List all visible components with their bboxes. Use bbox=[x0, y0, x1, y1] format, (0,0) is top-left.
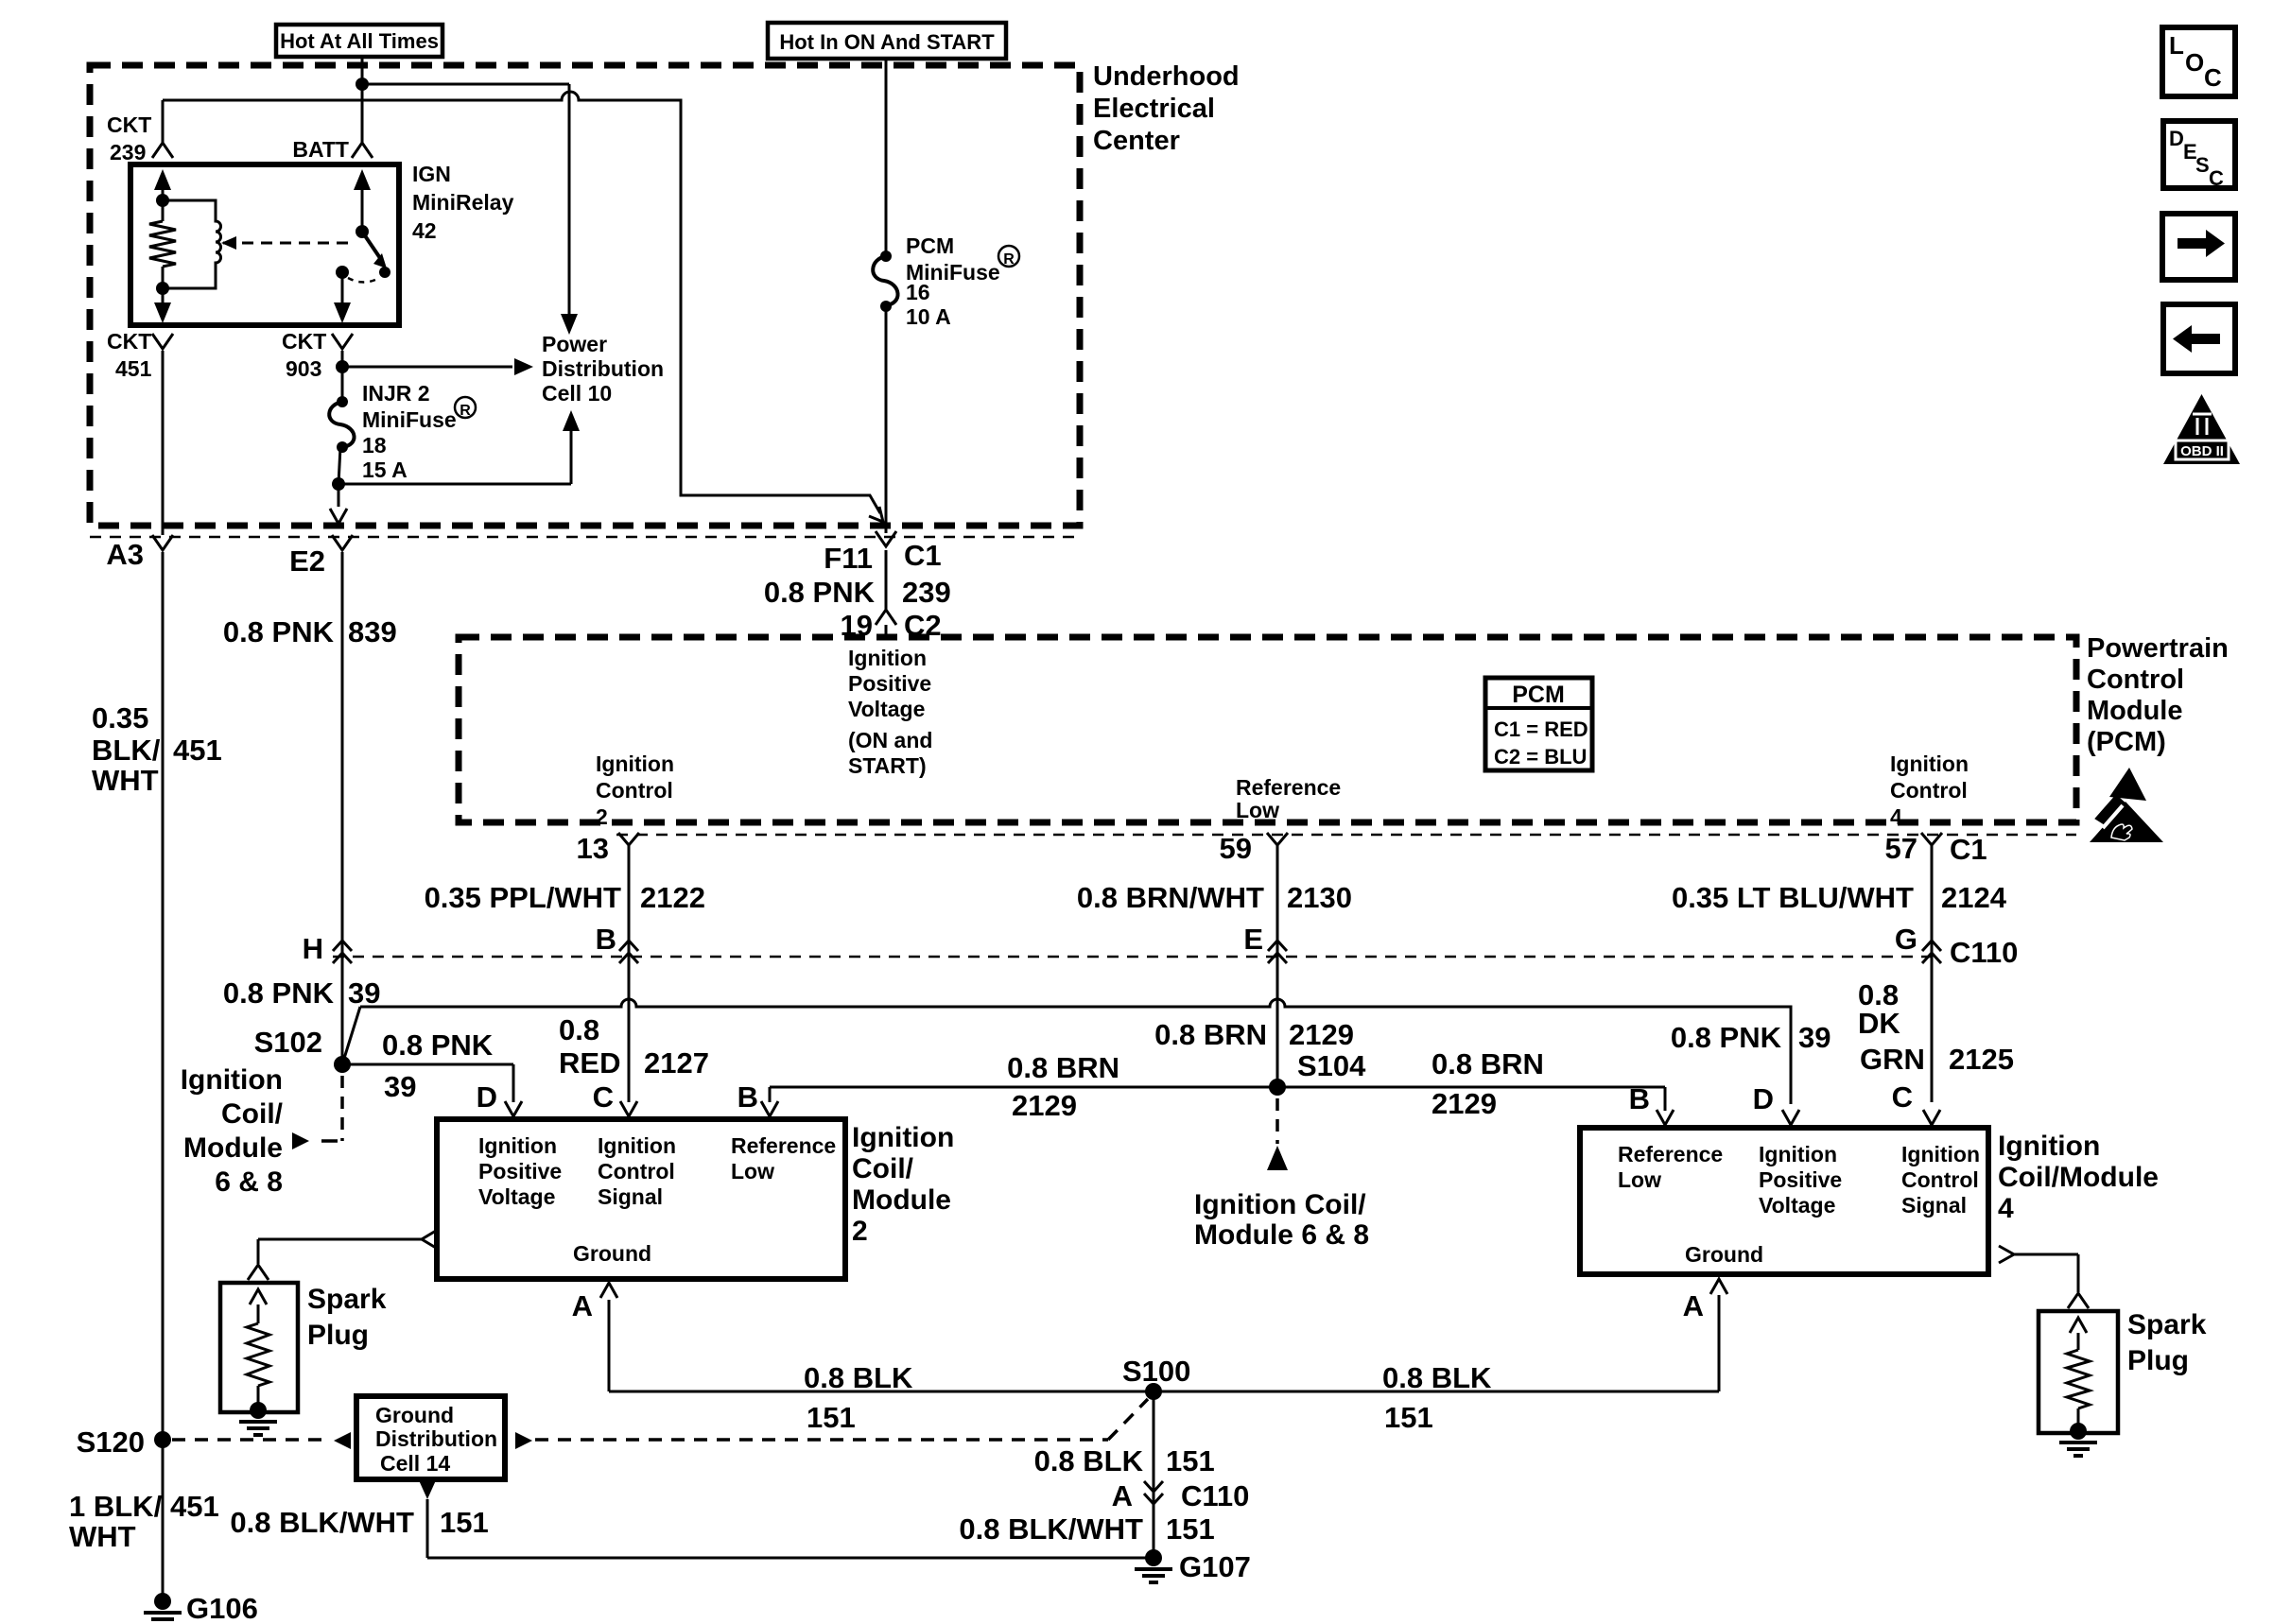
ground symbol at spark plug (left) bbox=[239, 1422, 277, 1435]
svg-text:151: 151 bbox=[1166, 1512, 1215, 1546]
svg-text:839: 839 bbox=[348, 615, 397, 648]
relay box IGN MiniRelay 42 bbox=[130, 164, 399, 325]
connector interface dashed line under UEC bbox=[90, 536, 1080, 539]
svg-text:2127: 2127 bbox=[644, 1046, 709, 1080]
wire 0.8 BLK 151 run bbox=[609, 1391, 1719, 1393]
wire ground from coil 2 pin A bbox=[608, 1300, 611, 1391]
svg-text:451: 451 bbox=[115, 356, 152, 381]
relay pin arrow BATT side bbox=[354, 169, 371, 190]
splice S100 bbox=[1145, 1383, 1162, 1400]
svg-text:0.8 BLK: 0.8 BLK bbox=[1034, 1444, 1144, 1477]
svg-text:A3: A3 bbox=[106, 538, 144, 571]
ESD symbol lower triangle bbox=[2090, 802, 2163, 842]
svg-text:13: 13 bbox=[577, 832, 609, 865]
svg-text:G107: G107 bbox=[1179, 1550, 1251, 1583]
relay resistor bbox=[149, 221, 176, 267]
icon forward arrow box bbox=[2162, 214, 2235, 280]
svg-text:39: 39 bbox=[384, 1070, 416, 1103]
svg-text:151: 151 bbox=[440, 1506, 489, 1539]
arrow up into Power Distribution Cell 10 bbox=[563, 410, 580, 431]
svg-text:0.8 BRN: 0.8 BRN bbox=[1007, 1051, 1119, 1084]
svg-text:0.8 BLK/WHT: 0.8 BLK/WHT bbox=[230, 1506, 414, 1539]
svg-text:0.8 BRN: 0.8 BRN bbox=[1431, 1047, 1544, 1080]
arrow at UEC boundary E2 bbox=[330, 509, 347, 524]
Ground Distribution Cell 14 box bbox=[356, 1396, 505, 1479]
svg-text:Cell 14: Cell 14 bbox=[380, 1451, 450, 1476]
relay switch arm bbox=[362, 232, 380, 258]
svg-text:Ignition Coil/Module 6 & 8: Ignition Coil/Module 6 & 8 bbox=[1194, 1189, 1369, 1251]
wire: Hot At All Times feed down to BATT bbox=[361, 57, 364, 143]
svg-text:39: 39 bbox=[348, 976, 380, 1010]
svg-text:BLK/: BLK/ bbox=[92, 734, 161, 767]
relay coil bottom node bbox=[156, 282, 169, 295]
relay switch arm arrowhead bbox=[373, 253, 387, 268]
svg-text:C: C bbox=[2209, 166, 2224, 190]
relay coil winding bbox=[163, 200, 221, 288]
wire diagonal from S102 to 39 run bbox=[342, 1007, 360, 1064]
svg-text:GRN: GRN bbox=[1860, 1043, 1925, 1076]
wire branch to Power Distribution bbox=[342, 366, 512, 369]
registered trademark mark bbox=[455, 397, 476, 418]
svg-text:C: C bbox=[593, 1080, 614, 1114]
wire ground from coil 4 pin A bbox=[1718, 1295, 1721, 1391]
icon back arrow box bbox=[2163, 304, 2235, 373]
svg-text:B: B bbox=[737, 1080, 758, 1114]
wire S100 down to G107 bbox=[1153, 1391, 1155, 1558]
connector E2 bbox=[332, 535, 353, 550]
relay switch arm contact bbox=[379, 267, 390, 278]
svg-text:CKT: CKT bbox=[107, 112, 151, 137]
svg-text:0.8 PNK: 0.8 PNK bbox=[223, 615, 335, 648]
PCM pin 13 connector bbox=[618, 833, 639, 845]
spark gap arrow (left) bbox=[250, 1289, 267, 1304]
relay pin arrow CKT903 side bbox=[334, 302, 351, 323]
svg-text:(ON andSTART): (ON andSTART) bbox=[848, 728, 932, 778]
svg-text:A: A bbox=[1683, 1289, 1704, 1322]
svg-text:Hot In ON And START: Hot In ON And START bbox=[779, 30, 995, 54]
svg-text:IgnitionPositiveVoltage: IgnitionPositiveVoltage bbox=[848, 646, 931, 721]
ESD symbol upper triangle bbox=[2109, 768, 2146, 801]
svg-text:451: 451 bbox=[173, 734, 222, 767]
svg-text:A: A bbox=[572, 1289, 593, 1322]
connector C2 at PCM bbox=[876, 610, 896, 625]
registered trademark mark bbox=[998, 246, 1019, 267]
arrow joining PCM fuse output at C1 bbox=[869, 507, 883, 522]
spark plug (right) bbox=[2039, 1311, 2118, 1433]
dashed wire Ground Distribution to S100 bbox=[535, 1438, 1108, 1442]
relay switch input wire bbox=[361, 185, 364, 232]
ground symbol G107 bbox=[1135, 1569, 1172, 1582]
Underhood Electrical Center dashed enclosure bbox=[90, 65, 1080, 526]
connector C110 dashed line bbox=[333, 956, 1938, 959]
svg-text:Ground: Ground bbox=[573, 1241, 651, 1266]
svg-text:C110: C110 bbox=[1181, 1479, 1249, 1512]
wire coil 4 secondary to spark plug bbox=[1999, 1246, 2014, 1263]
svg-text:239: 239 bbox=[902, 576, 951, 609]
connector B at C110 bbox=[619, 941, 638, 951]
wire 0.35 BLK/WHT 451 down to S120 bbox=[162, 552, 165, 1440]
svg-text:39: 39 bbox=[1798, 1021, 1831, 1054]
svg-text:D: D bbox=[477, 1080, 497, 1114]
wire INJR2 to E2 pin bbox=[338, 484, 340, 507]
svg-text:E2: E2 bbox=[289, 544, 325, 578]
wire 0.8 PNK 39 branch to coil module 2 bbox=[342, 1063, 513, 1066]
svg-text:0.35 LT BLU/WHT: 0.35 LT BLU/WHT bbox=[1672, 881, 1914, 914]
dashed stub to Ignition Coil/Module 6 & 8 (S104) bbox=[1275, 1098, 1279, 1144]
svg-text:IgnitionPositiveVoltage: IgnitionPositiveVoltage bbox=[478, 1133, 562, 1209]
wire pole to CKT903 pin bbox=[341, 272, 344, 306]
CKT 451 pin connector bbox=[152, 334, 173, 349]
svg-text:WHT: WHT bbox=[69, 1520, 136, 1553]
BATT pin connector bbox=[352, 143, 373, 158]
PCM connector interface dashed line bbox=[616, 834, 2076, 837]
svg-text:0.8 BLK/WHT: 0.8 BLK/WHT bbox=[959, 1512, 1143, 1546]
svg-text:2130: 2130 bbox=[1287, 881, 1352, 914]
svg-text:0.8: 0.8 bbox=[559, 1013, 599, 1046]
arrow to Power Distribution Cell 10 bbox=[514, 358, 533, 375]
svg-text:2129: 2129 bbox=[1012, 1089, 1077, 1122]
svg-text:S: S bbox=[2195, 153, 2210, 177]
svg-text:1 BLK/: 1 BLK/ bbox=[69, 1490, 163, 1523]
ESD symbol gap bbox=[2103, 805, 2123, 828]
svg-text:R: R bbox=[460, 403, 471, 419]
icon OBD II triangle bbox=[2163, 394, 2240, 464]
svg-text:BATT: BATT bbox=[292, 137, 349, 162]
svg-text:239: 239 bbox=[110, 140, 146, 164]
wire S120 to G106 bbox=[162, 1440, 165, 1601]
wire: drop to Power Distribution bbox=[568, 84, 571, 316]
wire PCM fuse down to C1 connector bbox=[885, 306, 888, 533]
junction CKT903 branch bbox=[336, 360, 349, 373]
spark plug connector (left) bbox=[248, 1265, 269, 1280]
svg-text:0.35 PPL/WHT: 0.35 PPL/WHT bbox=[425, 881, 621, 914]
spark plug ground node (left) bbox=[250, 1402, 267, 1419]
Powertrain Control Module dashed enclosure bbox=[459, 637, 2076, 822]
svg-text:CKT: CKT bbox=[107, 329, 151, 354]
spark plug resistor (left) bbox=[247, 1323, 269, 1386]
svg-text:C2 = BLU: C2 = BLU bbox=[1494, 745, 1587, 769]
relay pin arrow CKT239 side bbox=[154, 169, 171, 190]
relay coil top node bbox=[156, 194, 169, 207]
relay switch travel arc bbox=[348, 278, 379, 283]
ESD symbol wrist bbox=[2095, 795, 2125, 825]
svg-text:151: 151 bbox=[1166, 1444, 1215, 1477]
wire from INJR2 fuse output up to Cell 10 bbox=[570, 427, 573, 484]
relay switch pole bbox=[336, 266, 349, 279]
icon LOC box bbox=[2162, 27, 2235, 96]
fuse PCM MiniFuse 16 10A bbox=[880, 251, 892, 262]
PCM pin 59 connector bbox=[1267, 833, 1288, 845]
wire C2 into PCM bbox=[885, 625, 888, 639]
wire into relay resistor bbox=[162, 200, 165, 221]
actuation arrow at coil bbox=[221, 236, 236, 250]
arrow from Ignition Coil/Module 6 & 8 bbox=[292, 1132, 309, 1149]
wire 0.8 BRN 2129 run between coil modules bbox=[770, 1086, 1665, 1089]
wire 0.8 PNK 39 run to coil module 4 with hops bbox=[360, 999, 1791, 1104]
ground symbol G106 bbox=[144, 1613, 182, 1624]
svg-text:R: R bbox=[1003, 251, 1015, 268]
svg-text:C: C bbox=[1892, 1080, 1913, 1114]
svg-text:C: C bbox=[2204, 63, 2222, 92]
svg-text:0.8 PNK: 0.8 PNK bbox=[223, 976, 335, 1010]
svg-text:S100: S100 bbox=[1122, 1355, 1190, 1388]
wire 0.35 LT BLU/WHT 2124 / 0.8 DK GRN 2125 bbox=[1931, 845, 1934, 1102]
arrow into coil module 4 pin D bbox=[1782, 1110, 1799, 1125]
splice S104 bbox=[1269, 1079, 1286, 1096]
ESD symbol hand bbox=[2111, 824, 2132, 840]
svg-text:OBD II: OBD II bbox=[2180, 443, 2224, 459]
svg-text:2124: 2124 bbox=[1941, 881, 2007, 914]
svg-text:PCM: PCM bbox=[1512, 682, 1565, 708]
svg-text:C1: C1 bbox=[904, 539, 942, 572]
wire coil 2 secondary to spark plug bbox=[422, 1231, 436, 1248]
relay actuation dashed link bbox=[223, 242, 354, 245]
PCM connector color legend box bbox=[1485, 678, 1592, 770]
svg-text:L: L bbox=[2169, 31, 2184, 60]
wire 0.35 PPL/WHT 2122 / 0.8 RED 2127 bbox=[628, 845, 631, 1102]
wire 0.8 PNK 839/39 down to S102 bbox=[341, 552, 344, 1064]
connector C1 at UEC bbox=[876, 531, 896, 546]
svg-text:2122: 2122 bbox=[640, 881, 705, 914]
junction to Cell 10 feed bbox=[332, 477, 345, 491]
relay switch pivot bbox=[356, 225, 369, 238]
splice S120 bbox=[154, 1431, 171, 1448]
label box: Hot In ON And START bbox=[768, 23, 1006, 59]
spark plug (left) bbox=[220, 1283, 298, 1412]
svg-text:C1: C1 bbox=[1950, 833, 1987, 866]
svg-text:D: D bbox=[1753, 1082, 1774, 1115]
wire 0.8 BRN/WHT 2130 / 0.8 BRN 2129 bbox=[1276, 845, 1279, 1087]
svg-text:0.8 BLK: 0.8 BLK bbox=[804, 1361, 913, 1394]
svg-text:59: 59 bbox=[1220, 832, 1252, 865]
svg-text:IgnitionPositiveVoltage: IgnitionPositiveVoltage bbox=[1759, 1142, 1842, 1218]
svg-text:S104: S104 bbox=[1297, 1049, 1366, 1082]
Ignition Coil/Module 2 box bbox=[437, 1119, 845, 1279]
arrow into coil module 4 pin C bbox=[1923, 1110, 1940, 1125]
arrow into coil module 2 pin A bbox=[600, 1283, 617, 1298]
arrow into coil module 4 pin A bbox=[1710, 1279, 1727, 1294]
ground G106 node bbox=[154, 1593, 171, 1610]
svg-text:DK: DK bbox=[1858, 1007, 1900, 1040]
connector E at C110 bbox=[1268, 941, 1287, 951]
CKT 239 pin connector bbox=[152, 143, 173, 158]
svg-text:O: O bbox=[2185, 48, 2204, 77]
spark plug resistor (right) bbox=[2067, 1350, 2090, 1408]
icon DESC box bbox=[2163, 121, 2235, 188]
arrow into coil module 4 pin B bbox=[1657, 1110, 1674, 1125]
svg-text:2129: 2129 bbox=[1289, 1018, 1354, 1051]
connector H at C110 bbox=[333, 941, 352, 951]
wire inside relay left bbox=[162, 185, 165, 195]
arrow to S100 side bbox=[515, 1432, 532, 1449]
dashed wire S120 to Ground Distribution bbox=[172, 1438, 331, 1442]
wire to CKT451 pin bbox=[162, 288, 165, 306]
svg-text:S102: S102 bbox=[254, 1026, 322, 1059]
svg-text:151: 151 bbox=[1384, 1401, 1433, 1434]
svg-text:0.8 BRN: 0.8 BRN bbox=[1154, 1018, 1267, 1051]
CKT 903 pin connector bbox=[332, 334, 353, 349]
svg-text:0.8 PNK: 0.8 PNK bbox=[764, 576, 876, 609]
svg-text:G106: G106 bbox=[186, 1592, 258, 1624]
svg-text:Hot At All Times: Hot At All Times bbox=[280, 29, 439, 53]
wire: battery feed to Power Distribution bbox=[362, 83, 569, 86]
svg-text:B: B bbox=[1629, 1082, 1650, 1115]
arrow to Ignition Coil/Module 6 & 8 bbox=[1267, 1146, 1288, 1170]
svg-text:2129: 2129 bbox=[1431, 1087, 1497, 1120]
PCM pin 57 connector bbox=[1921, 833, 1942, 845]
connector A3 bbox=[152, 535, 173, 550]
spark gap arrow (right) bbox=[2070, 1318, 2087, 1333]
svg-text:903: 903 bbox=[286, 356, 321, 381]
spark plug ground node (right) bbox=[2070, 1423, 2087, 1440]
svg-text:151: 151 bbox=[807, 1401, 856, 1434]
wire: Hot In ON And START to PCM fuse bbox=[885, 59, 888, 256]
relay pin arrow CKT451 side bbox=[154, 302, 171, 323]
arrow below Ground Distribution bbox=[419, 1480, 436, 1499]
svg-text:57: 57 bbox=[1885, 832, 1917, 865]
ground symbol at spark plug (right) bbox=[2059, 1443, 2097, 1456]
arrow to S120 side bbox=[334, 1432, 351, 1449]
connector G at C110 bbox=[1922, 941, 1941, 951]
wire: CKT 239 branch with hop over Power Distribution drop bbox=[163, 92, 880, 513]
svg-text:C1 = RED: C1 = RED bbox=[1494, 717, 1588, 741]
wire CKT903 to INJR2 fuse bbox=[341, 351, 344, 402]
svg-text:451: 451 bbox=[170, 1490, 219, 1523]
svg-text:C110: C110 bbox=[1950, 936, 2018, 969]
svg-text:0.8 BLK: 0.8 BLK bbox=[1382, 1361, 1492, 1394]
svg-text:CKT: CKT bbox=[282, 329, 326, 354]
svg-text:A: A bbox=[1112, 1479, 1133, 1512]
svg-text:E: E bbox=[1243, 923, 1263, 956]
svg-text:WHT: WHT bbox=[92, 764, 159, 797]
fuse INJR 2 MiniFuse 18 15A bbox=[337, 396, 348, 407]
spark plug connector (right) bbox=[2068, 1293, 2089, 1308]
svg-text:0.8 PNK: 0.8 PNK bbox=[382, 1028, 494, 1062]
arrow into coil module 2 pin D bbox=[505, 1101, 522, 1116]
arrow into coil module 2 pin C bbox=[620, 1101, 637, 1116]
svg-text:RED: RED bbox=[559, 1046, 620, 1080]
svg-text:S120: S120 bbox=[77, 1425, 145, 1459]
ground G107 node bbox=[1145, 1549, 1162, 1566]
label box: Hot At All Times bbox=[276, 25, 442, 57]
wire 0.8 BLK/WHT 151 to G107 bbox=[426, 1499, 429, 1558]
splice S102 bbox=[334, 1056, 351, 1073]
junction at battery feed bbox=[356, 78, 369, 91]
dashed stub to Ignition Coil/Module 6 & 8 bbox=[340, 1076, 344, 1141]
svg-text:Ground: Ground bbox=[1685, 1242, 1763, 1267]
svg-text:H: H bbox=[303, 932, 323, 965]
arrow into Power Distribution Cell 10 bbox=[561, 314, 578, 335]
svg-text:0.8 BRN/WHT: 0.8 BRN/WHT bbox=[1077, 881, 1264, 914]
svg-text:0.8 PNK: 0.8 PNK bbox=[1671, 1021, 1782, 1054]
Ignition Coil/Module 4 box bbox=[1580, 1128, 1988, 1274]
wire between C1 and C2 halves bbox=[885, 550, 888, 610]
arrow into coil module 2 pin B bbox=[761, 1101, 778, 1116]
svg-text:D: D bbox=[2169, 127, 2184, 150]
svg-text:B: B bbox=[596, 923, 616, 956]
svg-text:2125: 2125 bbox=[1949, 1043, 2014, 1076]
wire CKT451 down to A3 bbox=[162, 351, 165, 535]
svg-text:G: G bbox=[1895, 923, 1917, 956]
wire below INJR2 fuse bbox=[338, 447, 340, 484]
connector A at C110 (ground) bbox=[1144, 1481, 1163, 1492]
wire: down to CKT 239 pin bbox=[162, 100, 165, 143]
svg-text:F11: F11 bbox=[824, 542, 873, 575]
svg-text:0.35: 0.35 bbox=[92, 701, 148, 734]
